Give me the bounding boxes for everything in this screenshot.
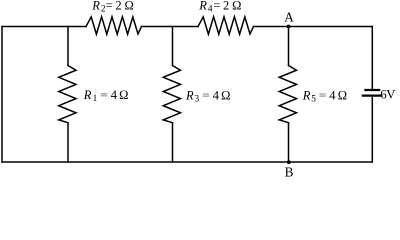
- wire top rail left segment: [2, 26, 86, 28]
- resistor R4 zigzag: [198, 17, 254, 35]
- resistor R3 zigzag: [163, 66, 180, 123]
- node A junction dot: [287, 25, 291, 29]
- svg-text:R2=2Ω: R2=2Ω: [91, 0, 133, 15]
- label R1 = 4 ohm: [83, 88, 129, 104]
- battery V1 negative plate (short, top): [364, 89, 380, 91]
- label R5 = 4 ohm: [302, 88, 347, 104]
- svg-text:6V: 6V: [380, 88, 396, 102]
- wire bottom rail: [2, 161, 372, 163]
- wire R3 branch lower lead: [172, 123, 174, 162]
- resistor R1 zigzag: [59, 66, 76, 123]
- wire R5 branch lower lead: [288, 123, 290, 162]
- svg-text:R4=2Ω: R4=2Ω: [198, 0, 241, 15]
- wire right rail lower: [371, 97, 373, 162]
- wire R1 branch upper lead: [67, 27, 69, 66]
- svg-text:B: B: [285, 165, 294, 179]
- svg-text:R1=4Ω: R1=4Ω: [83, 88, 129, 104]
- svg-text:R3=4Ω: R3=4Ω: [185, 88, 230, 104]
- wire R3 branch upper lead: [172, 27, 174, 66]
- wire R1 branch lower lead: [67, 123, 69, 162]
- wire right rail upper: [371, 27, 373, 89]
- resistor R2 zigzag: [86, 17, 142, 35]
- node B junction dot: [287, 160, 291, 164]
- battery V1 positive plate (long, bottom): [362, 94, 383, 96]
- resistor R5 zigzag: [279, 66, 296, 123]
- svg-text:R5=4Ω: R5=4Ω: [302, 88, 347, 104]
- svg-text:A: A: [284, 10, 294, 25]
- wire top rail right segment: [254, 26, 373, 28]
- wire top rail middle segment: [142, 26, 199, 28]
- label R3 = 4 ohm: [185, 88, 230, 104]
- wire R5 branch upper lead: [288, 27, 290, 66]
- wire left rail: [1, 27, 3, 163]
